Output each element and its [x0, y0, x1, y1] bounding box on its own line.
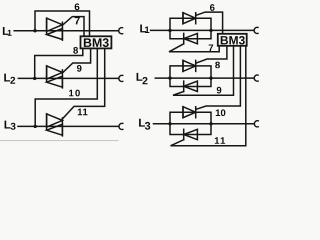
connector contact L1 (right circuit): [254, 27, 258, 33]
node L2 (left circuit) label: [4, 74, 15, 84]
connector contact L2 (right circuit): [254, 75, 258, 81]
wire 7 (right): gate of VS5 to BM3 bottom: [169, 44, 219, 52]
wire 8 (right): gate of VS6 to BM3 bottom: [197, 46, 227, 63]
pin label 11 (left): [78, 109, 88, 116]
pin label 7 (left): [75, 17, 80, 25]
wire L3 line (left circuit): [18, 125, 119, 127]
pin label 10 (right): [216, 109, 226, 116]
pin label 6 (right): [210, 4, 215, 11]
node L3 (right circuit) label: [139, 119, 150, 130]
thyristor VS4 forward (right circuit pair 1): [183, 13, 196, 24]
wire loop pair 1 (right circuit): [170, 18, 211, 39]
wire 9 (right): gate of VS7 to BM3 bottom: [173, 46, 234, 95]
thyristor VS5 reverse (right circuit pair 1): [184, 33, 198, 43]
node L2 (right circuit) label: [137, 73, 148, 84]
wire L2 line (left circuit): [18, 77, 118, 79]
control module BM3 (left circuit): [81, 36, 112, 48]
wire L1 line (right circuit): [151, 29, 255, 31]
node L3 (left circuit) label: [5, 121, 16, 130]
junction on L2 (left): [33, 77, 36, 80]
connector contact L3 (left circuit): [119, 123, 123, 129]
pin label 7 (right): [209, 44, 213, 51]
node L1 (left circuit) label: [3, 27, 12, 36]
wire L2 line (right circuit): [155, 77, 254, 79]
wire L3 line (right circuit): [154, 123, 255, 125]
junction right pair 3 (right): [209, 122, 212, 125]
wire loop pair 2 (right circuit): [170, 66, 211, 87]
junction left pair 3 (right): [168, 122, 171, 125]
wire 11 (right): gate of VS9 to BM3 bottom: [171, 46, 246, 146]
wire 8 (left): L2 tap up to BM3 bottom: [35, 48, 83, 78]
pin label 10 (left): [69, 90, 80, 97]
junction right pair 2 (right): [209, 76, 212, 79]
junction on L3 (left): [34, 125, 37, 128]
thyristor VS9 reverse (right circuit pair 3): [184, 129, 198, 139]
triac VS2 (left circuit): [47, 66, 63, 88]
node L1 (right circuit) label: [140, 24, 149, 33]
thyristor VS8 forward (right circuit pair 3): [183, 107, 196, 118]
connector contact L2 (left circuit): [119, 75, 123, 81]
junction right pair 1 (right): [209, 29, 212, 32]
pin label 11 (right): [215, 137, 225, 144]
pin label 8 (right): [215, 62, 220, 69]
junction on L1 (left): [33, 29, 36, 32]
wire 6 (left): L1 tap up and over to BM3 top: [35, 11, 90, 36]
connector contact L3 (right circuit): [254, 121, 258, 127]
control module BM3 (right circuit): [218, 34, 247, 46]
wire 11 (left): gate of VS3 to BM3 bottom: [62, 48, 104, 119]
wire 6 (right): gate of VS4 to BM3 top: [197, 12, 223, 34]
triac VS1 (left circuit): [47, 18, 63, 40]
wire 10 (right): gate of VS8 to BM3 bottom: [197, 46, 241, 109]
pin label 9 (right): [217, 87, 222, 94]
pin label 8 (left): [73, 47, 78, 54]
junction left pair 2 (right): [168, 76, 171, 79]
pin label 9 (left): [77, 65, 82, 72]
junction left pair 1 (right): [168, 29, 171, 32]
wire 10 (left): L3 tap up to BM3 bottom: [35, 48, 97, 126]
pin label 6 (left): [75, 3, 80, 10]
wire 7 (left): gate of VS1 to BM3 top: [62, 17, 84, 37]
wire loop pair 3 (right circuit): [170, 112, 211, 134]
connector contact L1 (left circuit): [119, 28, 123, 34]
thyristor VS6 forward (right circuit pair 2): [183, 60, 196, 71]
wire L1 line (left circuit): [14, 30, 119, 32]
wire 9 (left): gate of VS2 to BM3 bottom: [62, 48, 90, 73]
thyristor VS7 reverse (right circuit pair 2): [184, 81, 198, 91]
triac VS3 (left circuit): [47, 114, 63, 136]
